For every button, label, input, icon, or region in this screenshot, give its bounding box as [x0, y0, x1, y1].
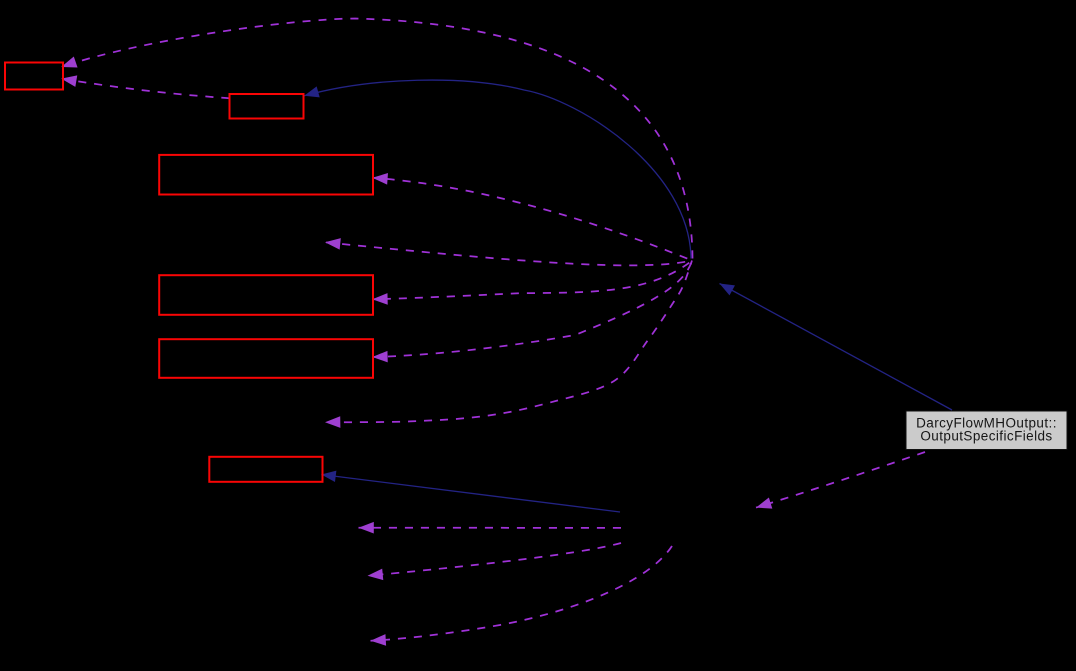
wire hub1 to box2: [304, 80, 691, 258]
node DarcyFlowMHOutput::OutputSpecificFields: [906, 411, 1067, 450]
wire graybox to hub1: [720, 284, 953, 411]
node box1: [5, 63, 63, 90]
node box4: [159, 275, 373, 315]
wire hub1 to box5: [372, 261, 692, 358]
wire hub2 to nodeE: [371, 546, 673, 641]
wire arcTop: [61, 19, 692, 259]
blue solid edges: [304, 80, 952, 512]
wire hub1 to nodeA: [325, 242, 692, 265]
node box5: [159, 339, 373, 378]
wire graybox to hub2: [756, 452, 925, 508]
wire hub2 to nodeD: [368, 543, 622, 576]
wire hub1 to box3: [372, 178, 692, 261]
node box6: [209, 457, 322, 482]
wire hub1 to box4: [372, 261, 692, 300]
node box2: [230, 94, 304, 119]
wire box2 to box1: [61, 79, 229, 99]
node box3: [159, 155, 373, 195]
wire hub1 to nodeB: [325, 261, 692, 423]
wire hub2 to nodeC: [359, 527, 622, 529]
edge: hub1 to box1 (top arc, dashed): [61, 19, 925, 641]
svg-text:OutputSpecificFields: OutputSpecificFields: [920, 429, 1052, 444]
wire hub2 to box6: [321, 475, 620, 513]
